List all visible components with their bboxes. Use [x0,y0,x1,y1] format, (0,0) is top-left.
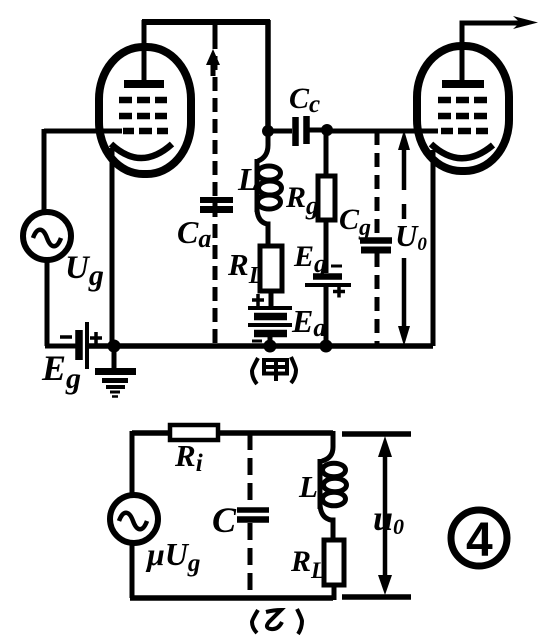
wire Ea to rail [268,335,273,346]
capacitor Cc [268,116,327,146]
capacitor Cg dashed line [375,131,380,345]
resistor RL2 [324,540,344,585]
ground [95,346,136,397]
capacitor Cg [360,241,392,251]
capacitor C dashed line [248,433,253,598]
source Ug [23,212,71,260]
inductor L [257,131,282,246]
capacitor Ca dashed line [213,25,218,345]
resistor RL [260,246,282,291]
source uUg [110,495,158,543]
svg-text:L: L [237,161,258,197]
resistor Ri [170,425,218,440]
wire right drop from top rail [265,20,271,131]
node ground junction [108,340,121,353]
wire Rg to Eg2 [324,220,329,273]
wire V1 cathode lead [110,148,115,345]
battery Eg1 [60,322,102,369]
node L top junction [262,125,274,137]
svg-text:C: C [212,500,237,540]
svg-text:4: 4 [466,514,493,567]
wire Eg2 to rail [324,285,329,346]
wire rail 2 right [218,430,333,436]
wire RL to Ea [269,291,274,308]
wire grid feed from Ug [44,129,122,213]
wire left branch bottom [130,541,135,598]
svg-text:L: L [298,469,318,504]
node Cc right junction [321,124,333,136]
arrow output [513,16,538,29]
capacitor Ca [200,200,233,210]
arrow on Ca line [211,62,216,76]
wire V2 cathode lead [431,150,436,346]
wire RL2 to rail [332,585,337,600]
node Eg2 rail junction [320,340,333,353]
wire top rail 2 [132,430,172,436]
wire bottom rail 2 [130,595,333,601]
battery Ea [248,308,292,341]
wire top rail [142,19,270,25]
wire left branch [130,431,135,497]
wire bottom rail [89,343,433,349]
resistor Rg [324,131,329,176]
label (甲) [252,357,296,384]
wire V2 anode out [462,23,523,84]
badge 4 [451,510,507,567]
wire left anode lead [142,20,147,82]
wire Ug bottom to battery [45,258,76,346]
vacuum tube V2 [417,46,509,171]
wire grid feed V2 [327,129,438,134]
inductor L2 [320,431,347,540]
battery Eg2 [305,266,351,298]
capacitor C [237,510,269,520]
arrow U0 [398,130,410,346]
plus sign Ea [252,294,264,306]
node Ea rail junction [264,340,277,353]
vacuum tube V1 [99,47,191,174]
arrow u0 [342,434,411,597]
label (乙) [252,609,302,634]
